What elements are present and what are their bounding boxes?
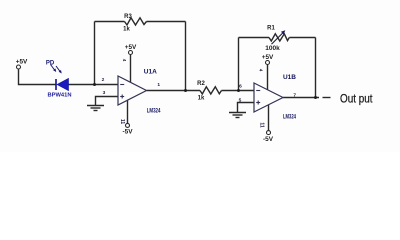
op-amp U1A <box>118 76 147 105</box>
wire U1A V+ supply <box>130 55 132 83</box>
svg-text:7: 7 <box>293 92 296 98</box>
wire ground to U1A non-inverting input <box>96 97 119 106</box>
svg-text:4: 4 <box>259 69 264 72</box>
svg-text:R2: R2 <box>197 81 205 87</box>
power terminal +5V (U1A V+) <box>129 51 133 55</box>
svg-text:LM324: LM324 <box>283 113 296 120</box>
svg-text:1k: 1k <box>123 26 130 32</box>
svg-text:3: 3 <box>103 90 106 96</box>
svg-text:R3: R3 <box>124 14 132 20</box>
wire U1B output to Out put <box>283 97 319 99</box>
wire photodiode to U1A inverting input <box>69 84 119 86</box>
svg-text:1k: 1k <box>198 95 205 101</box>
wire U1B V+ supply <box>267 65 269 90</box>
ground GND2 (U1B + input) <box>229 113 246 118</box>
svg-text:U1B: U1B <box>283 74 296 81</box>
junction node D (U1B output / feedback R1) <box>314 96 317 99</box>
wire feedback loop U1B top right segment <box>289 37 315 39</box>
svg-text:-5V: -5V <box>263 136 274 143</box>
wire feedback loop U1A right vertical <box>185 22 187 91</box>
svg-text:1: 1 <box>157 82 160 88</box>
power terminal +5V (far left) <box>17 65 21 69</box>
svg-text:U1A: U1A <box>144 69 157 76</box>
wire +5V terminal to photodiode <box>19 69 57 85</box>
op-amp U1B <box>254 83 283 112</box>
wire feedback loop U1A top right segment <box>147 21 186 23</box>
svg-text:R1: R1 <box>267 26 275 32</box>
wire output dash <box>323 97 331 99</box>
wire U1A output <box>147 90 201 92</box>
photodiode PD BPW41N <box>51 65 69 91</box>
svg-text:2: 2 <box>102 77 105 83</box>
svg-text:Out put: Out put <box>340 92 373 106</box>
svg-text:5: 5 <box>239 98 242 104</box>
svg-text:11: 11 <box>119 119 125 125</box>
wire U1A V- supply <box>127 100 129 124</box>
resistor R1 <box>269 34 289 41</box>
wire ground to U1B non-inverting input <box>238 103 255 113</box>
wire U1B V- supply <box>268 105 270 131</box>
wire feedback loop U1B left vertical <box>238 38 240 91</box>
wire R2 to U1B inverting input <box>222 90 255 92</box>
junction node A (feedback R3 / photodiode / pin 2) <box>93 83 96 86</box>
power terminal +5V (U1B V+) <box>266 61 270 65</box>
wire feedback loop U1B right vertical <box>315 38 317 98</box>
power terminal -5V (U1B V-) <box>267 131 271 135</box>
svg-text:100k: 100k <box>265 46 280 52</box>
resistor R3 <box>125 18 147 25</box>
svg-text:+5V: +5V <box>262 54 274 61</box>
junction node B (U1A output / feedback R3) <box>184 89 187 92</box>
svg-text:+5V: +5V <box>16 58 28 65</box>
svg-text:-5V: -5V <box>123 129 134 136</box>
ground GND1 (U1A + input) <box>87 106 104 111</box>
svg-text:PD: PD <box>46 60 55 66</box>
wire feedback loop U1A top left segment <box>95 21 125 23</box>
svg-text:BPW41N: BPW41N <box>48 92 72 98</box>
svg-text:6: 6 <box>239 84 242 90</box>
svg-text:+5V: +5V <box>125 44 137 51</box>
wire feedback loop U1B top left segment <box>239 37 270 39</box>
resistor R1 wiper arrow <box>272 30 286 44</box>
resistor R2 <box>200 87 222 94</box>
svg-text:4: 4 <box>122 59 127 62</box>
junction node C (R2 / feedback R1 / pin 6) <box>237 89 240 92</box>
power terminal -5V (U1A V-) <box>126 123 130 127</box>
wire feedback loop U1A left vertical <box>94 22 96 85</box>
svg-text:LM324: LM324 <box>147 108 161 115</box>
svg-text:11: 11 <box>259 122 265 128</box>
